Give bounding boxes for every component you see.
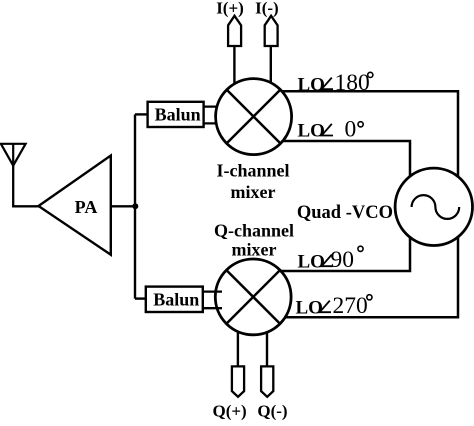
label Q-channel mixer [214,221,294,260]
svg-text:PA: PA [75,197,98,217]
wire Q(+) pin to mixer [237,320,239,367]
svg-text:90: 90 [331,247,355,273]
mixer U2 Q-channel [215,259,291,335]
amplifier PA [39,156,111,255]
wire vertical bus junction to baluns [134,114,136,298]
wire LO 180 [253,91,458,206]
svg-text:I(+): I(+) [216,0,244,17]
svg-text:mixer: mixer [231,182,276,202]
wire LO 90 [253,206,410,271]
svg-text:Quad -VCO: Quad -VCO [297,203,393,223]
svg-text:LO: LO [298,251,325,272]
wire into balun 2 [135,297,147,299]
balun 1 balanced output lines [204,105,222,107]
svg-text:Balun: Balun [155,105,201,125]
svg-text:Q(-): Q(-) [257,402,287,421]
wire into balun 1 [135,113,149,115]
label I-channel mixer [216,161,289,203]
mixer U1 I-channel [216,79,292,155]
wire antenna to PA [13,165,38,206]
pin Q(+) [232,366,244,396]
svg-text:mixer: mixer [232,240,277,260]
label LO angle 270 [296,293,373,319]
balun 1 [148,102,204,127]
wire PA output to junction [111,205,136,207]
svg-text:LO: LO [296,297,323,318]
label LO angle 0 [298,116,364,142]
svg-text:0: 0 [345,116,357,142]
wire LO 270 [253,206,458,317]
svg-text:LO: LO [298,74,325,95]
svg-text:Q-channel: Q-channel [214,221,294,241]
svg-text:180: 180 [335,70,370,96]
svg-text:I-channel: I-channel [216,161,289,181]
svg-text:LO: LO [298,121,325,142]
oscillator Quad-VCO [395,168,472,245]
balun 2 balanced output lines [203,290,222,292]
pin I(+) [228,16,241,46]
wire I(-) pin to mixer [270,44,272,95]
svg-text:270: 270 [333,293,368,319]
svg-text:Balun: Balun [153,290,199,310]
pin Q(-) [261,366,273,396]
wire Q(-) pin to mixer [266,320,268,367]
antenna ANT [1,144,26,166]
wire LO 0 [253,141,410,206]
label LO angle 180 [298,70,373,96]
svg-text:I(-): I(-) [255,0,279,17]
label LO angle 90 [298,246,364,273]
svg-text:Q(+): Q(+) [212,402,246,421]
balun 2 [146,287,203,312]
junction node dot [132,203,138,209]
pin I(-) [265,16,278,46]
wire I(+) pin to mixer [233,44,235,95]
